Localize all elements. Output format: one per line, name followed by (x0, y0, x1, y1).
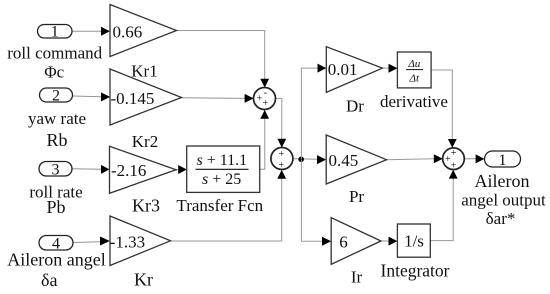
wire derivative block to sum S3 top (431, 70, 452, 139)
input port 3 (39, 162, 72, 177)
svg-text:0.45: 0.45 (329, 151, 359, 170)
svg-text:Kr: Kr (134, 269, 153, 289)
svg-text:s + 11.1: s + 11.1 (196, 152, 247, 169)
svg-text:3: 3 (52, 162, 60, 179)
wire gain Ir to Integrator block (381, 240, 389, 242)
sum S1 (254, 88, 276, 110)
svg-text:Aileron: Aileron (475, 171, 530, 191)
svg-text:Kr3: Kr3 (132, 195, 160, 215)
wire Transfer Fcn to sum S1 bottom (260, 117, 265, 169)
svg-text:Ir: Ir (351, 267, 363, 286)
wire sum S2 to gain Pr with junction (293, 158, 318, 161)
wire gain Kr1 to sum S1 left (182, 97, 246, 100)
input port 2 (40, 88, 73, 102)
wire gain 0.66 to sum S1 top (177, 31, 265, 81)
svg-text:+: + (278, 160, 284, 171)
gain Kr2 (110, 146, 177, 193)
sum S2 (271, 148, 293, 170)
wire port2 to gain Kr1 (72, 95, 102, 98)
svg-text:Kr2: Kr2 (132, 132, 158, 151)
svg-text:-: - (264, 87, 267, 98)
svg-text:1/s: 1/s (404, 231, 424, 250)
svg-text:Δt: Δt (409, 72, 420, 84)
svg-text:0.66: 0.66 (113, 22, 143, 41)
svg-text:2: 2 (52, 88, 60, 105)
wire port3 to gain Kr2 (72, 168, 102, 171)
svg-text:Φc: Φc (44, 62, 64, 81)
gain G1 0.66 (110, 5, 177, 57)
svg-text:Pb: Pb (46, 197, 65, 217)
derivative block (397, 52, 431, 88)
svg-text:-0.145: -0.145 (111, 89, 155, 108)
svg-text:-2.16: -2.16 (111, 161, 146, 180)
svg-text:Aileron angel: Aileron angel (7, 250, 105, 270)
svg-text:roll command: roll command (7, 43, 102, 62)
svg-text:Δu: Δu (407, 58, 420, 70)
svg-text:δar*: δar* (486, 209, 516, 228)
gain Ir 6 (331, 218, 381, 265)
wire gain Dr to derivative block (382, 67, 389, 69)
wire junction up to gain Dr (301, 68, 318, 159)
integrator block (397, 224, 430, 257)
svg-text:Pr: Pr (349, 187, 364, 206)
svg-text:Transfer Fcn: Transfer Fcn (176, 196, 263, 215)
wire sum S3 to output port (464, 158, 476, 160)
output port 1 (485, 151, 521, 167)
gain Dr 0.01 (326, 47, 382, 93)
svg-text:0.01: 0.01 (328, 60, 358, 79)
svg-text:+: + (262, 98, 268, 109)
svg-text:yaw rate: yaw rate (28, 109, 86, 128)
svg-text:Dr: Dr (346, 96, 364, 115)
svg-text:Integrator: Integrator (381, 260, 450, 280)
wire gain Kr to sum S2 bottom (171, 178, 282, 241)
sum S3 (443, 148, 465, 170)
input port 1 (38, 25, 73, 39)
svg-text:Kr1: Kr1 (131, 61, 157, 80)
wire junction down to gain Ir (301, 160, 322, 242)
junction node dot (298, 157, 304, 163)
svg-text:+: + (451, 148, 457, 159)
svg-text:derivative: derivative (380, 92, 448, 111)
transfer fcn block (187, 146, 260, 192)
gain Kr1 (110, 69, 182, 125)
svg-text:angel output: angel output (461, 190, 546, 209)
wire gain Kr2 to Transfer Fcn (176, 169, 179, 171)
gain Kr (110, 216, 171, 266)
svg-text:6: 6 (339, 233, 348, 252)
svg-text:+: + (278, 149, 284, 160)
wire Integrator block to sum S3 bottom (430, 179, 453, 241)
svg-text:δa: δa (41, 270, 57, 290)
svg-text:s + 25: s + 25 (202, 171, 241, 188)
wire port4 to gain Kr (73, 241, 100, 244)
wire port1 to gain 0.66 (72, 30, 102, 32)
svg-text:-1.33: -1.33 (110, 232, 145, 251)
svg-text:1: 1 (499, 152, 507, 169)
wire sum S1 to sum S2 top (276, 98, 282, 140)
gain Pr 0.45 (326, 135, 386, 184)
svg-text:Rb: Rb (46, 130, 67, 150)
wire gain Pr to sum S3 left (387, 158, 435, 161)
input port 4 (39, 236, 73, 251)
svg-text:+: + (451, 161, 457, 172)
svg-text:1: 1 (51, 24, 59, 41)
